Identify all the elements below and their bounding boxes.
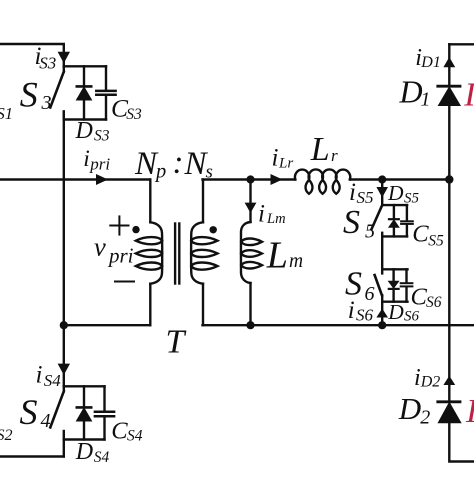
current arrow i_S5 xyxy=(376,187,388,198)
wire mid rail i_pri xyxy=(0,178,150,180)
wire primary bottom rail xyxy=(64,324,150,326)
capacitor C_S3 xyxy=(96,66,115,119)
wire Lm bottom xyxy=(249,283,251,325)
svg-text:p: p xyxy=(154,161,166,183)
node right rail junction dot xyxy=(445,175,453,183)
label i_S4 xyxy=(36,362,62,390)
svg-text:D: D xyxy=(387,300,404,324)
svg-text:C: C xyxy=(412,221,429,248)
label Lr xyxy=(310,131,338,168)
wire right rail lower xyxy=(448,325,450,401)
label i_S6 xyxy=(348,297,374,324)
wire S4 leg upper xyxy=(63,325,65,386)
transformer secondary winding xyxy=(191,180,217,326)
label - (v_pri) xyxy=(115,281,134,283)
wire S5 branch top xyxy=(381,180,383,206)
label C_S6 xyxy=(411,284,442,312)
label i_D2 xyxy=(414,365,440,391)
svg-text:i: i xyxy=(83,146,90,172)
wire S4 module top xyxy=(64,385,105,387)
wire S5-S6 link xyxy=(381,236,383,269)
wire S6 module top xyxy=(382,268,407,270)
svg-text:S3: S3 xyxy=(126,106,142,123)
node S5 top junction dot xyxy=(378,175,386,183)
label S5 xyxy=(343,204,375,242)
switch S5 xyxy=(372,205,383,236)
svg-text:C: C xyxy=(111,418,128,445)
inductor Lm xyxy=(241,222,262,283)
svg-text:pri: pri xyxy=(89,155,110,174)
wire S6 module bottom xyxy=(382,301,407,303)
label D_S6 xyxy=(387,300,419,324)
secondary polarity dot xyxy=(210,226,217,233)
label D2 xyxy=(398,391,431,429)
node junction S4-leg / primary bottom xyxy=(60,321,68,329)
svg-text:D: D xyxy=(387,181,404,205)
svg-text:S6: S6 xyxy=(356,305,374,324)
label D_S5 xyxy=(387,181,420,206)
capacitor C_S5 xyxy=(401,205,413,236)
svg-text:i: i xyxy=(414,365,421,391)
svg-text:pri: pri xyxy=(107,244,134,268)
svg-text:D1: D1 xyxy=(420,54,441,71)
svg-text:6: 6 xyxy=(365,283,375,305)
wire S6 bottom xyxy=(381,302,383,326)
svg-text:i: i xyxy=(348,297,355,324)
svg-text:C: C xyxy=(411,284,428,311)
current arrow i_D2 xyxy=(443,376,455,385)
label C_S3 xyxy=(111,94,142,123)
capacitor C_S6 xyxy=(401,269,413,301)
wire Lm branch top xyxy=(249,180,251,223)
wire top-right rail xyxy=(449,43,474,45)
svg-text:D: D xyxy=(75,439,93,465)
primary polarity dot xyxy=(132,226,139,233)
node A junction dot (sec top / Lm) xyxy=(246,175,254,183)
svg-text:r: r xyxy=(331,146,338,165)
label S4 xyxy=(20,392,51,432)
svg-text:S: S xyxy=(20,392,38,432)
svg-text:Lr: Lr xyxy=(278,156,293,172)
svg-text:v: v xyxy=(94,232,106,262)
diode D_S5 xyxy=(389,205,399,236)
inductor Lr xyxy=(295,169,350,193)
svg-text:3: 3 xyxy=(41,92,52,114)
wire S3 module bottom xyxy=(64,118,106,120)
diode D_S3 xyxy=(77,66,91,119)
wire Lr to S5 node xyxy=(350,178,449,180)
svg-text:T: T xyxy=(166,324,187,361)
svg-text:i: i xyxy=(258,201,265,228)
svg-text:S3: S3 xyxy=(94,128,110,145)
switch S4 xyxy=(50,386,64,439)
wire right rail upper xyxy=(448,44,450,85)
wire right rail mid xyxy=(448,105,450,325)
svg-text::: : xyxy=(173,145,184,181)
label i_S3 xyxy=(35,43,57,73)
label + (v_pri) xyxy=(110,216,128,234)
svg-text:i: i xyxy=(36,362,43,389)
label i_S5 xyxy=(349,179,374,207)
label v_pri xyxy=(94,232,134,268)
wire S3-S4 leg xyxy=(63,112,65,326)
svg-text:Lm: Lm xyxy=(266,211,286,227)
svg-text:5: 5 xyxy=(365,220,375,242)
node S6 bottom junction dot xyxy=(378,321,386,329)
wire bottom-left rail xyxy=(0,455,64,457)
diode D_S4 xyxy=(77,386,91,439)
svg-text:S: S xyxy=(20,75,38,115)
svg-text:S6: S6 xyxy=(426,294,442,311)
svg-text:D2: D2 xyxy=(420,374,441,391)
transformer core xyxy=(175,224,179,284)
svg-text:I: I xyxy=(465,393,474,430)
diode D_S6 xyxy=(389,269,399,301)
svg-text:L: L xyxy=(266,235,288,277)
current arrow i_pri xyxy=(96,174,108,185)
transformer T primary winding xyxy=(136,180,162,326)
label D_S4 xyxy=(75,439,110,466)
svg-text:S2: S2 xyxy=(0,427,13,444)
wire right rail bottom + corner xyxy=(449,422,474,461)
label Np : Ns xyxy=(134,145,213,183)
svg-text:S1: S1 xyxy=(0,104,13,123)
current arrow i_D1 xyxy=(443,57,455,67)
svg-text:i: i xyxy=(349,179,356,206)
wire secondary top to node A xyxy=(203,178,296,180)
svg-text:m: m xyxy=(289,251,303,272)
svg-text:S: S xyxy=(343,204,360,241)
svg-text:I: I xyxy=(463,77,474,114)
svg-text:1: 1 xyxy=(420,88,430,110)
svg-text:S4: S4 xyxy=(127,428,143,445)
wire S3 module top xyxy=(64,65,106,67)
label D_S3 xyxy=(75,118,110,145)
svg-text:D: D xyxy=(398,391,421,426)
label i_Lm xyxy=(258,201,286,228)
svg-text:i: i xyxy=(272,144,279,171)
wire S5 module top xyxy=(382,204,407,206)
wire secondary bottom rail xyxy=(203,324,474,326)
svg-text:S5: S5 xyxy=(428,232,444,249)
label i_pri xyxy=(83,146,110,173)
wire top-left rail xyxy=(0,44,64,66)
diode D1 xyxy=(438,86,460,105)
label S6 xyxy=(345,265,375,305)
svg-text:D: D xyxy=(75,118,93,144)
current arrow i_Lm xyxy=(245,203,257,213)
wire S5 module bottom xyxy=(382,235,407,237)
label i_D1 xyxy=(415,45,441,71)
diode D2 xyxy=(438,402,461,423)
label C_S5 xyxy=(412,221,444,250)
current arrow i_S6 xyxy=(376,309,388,318)
svg-text:4: 4 xyxy=(41,410,51,432)
switch S6 xyxy=(375,269,383,301)
capacitor C_S4 xyxy=(95,386,114,439)
current arrow i_Lr xyxy=(271,174,283,185)
svg-text:2: 2 xyxy=(420,407,430,429)
label C_S4 xyxy=(111,418,142,445)
current arrow i_S4 xyxy=(58,364,70,375)
svg-text:S4: S4 xyxy=(94,449,110,466)
wire S4 module bottom xyxy=(64,438,105,440)
svg-text:D: D xyxy=(399,74,423,110)
label S3 xyxy=(20,75,52,115)
switch S3 xyxy=(50,66,64,119)
svg-text:L: L xyxy=(310,131,330,168)
label Lm xyxy=(266,235,303,277)
current arrow i_S3 xyxy=(58,52,70,63)
svg-text:S4: S4 xyxy=(44,371,62,390)
label i_Lr xyxy=(272,144,294,171)
wire S4 bottom stub xyxy=(63,440,65,457)
svg-text:S3: S3 xyxy=(39,54,56,73)
label D1 xyxy=(399,74,431,111)
svg-text:S6: S6 xyxy=(404,309,420,325)
node Lm bottom junction dot xyxy=(246,321,254,329)
